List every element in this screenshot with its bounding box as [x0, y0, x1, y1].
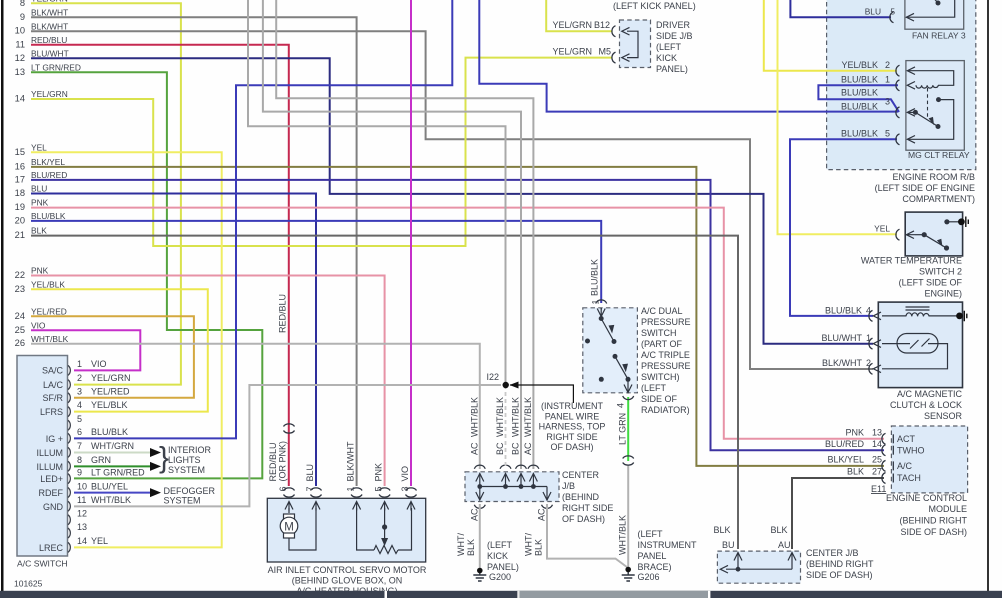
svg-text:5: 5	[890, 7, 895, 17]
ECM pin names	[897, 434, 925, 483]
svg-text:BLU/BLK: BLU/BLK	[841, 75, 878, 85]
svg-text:4: 4	[77, 400, 82, 410]
svg-text:BLK: BLK	[31, 226, 47, 236]
svg-text:BLK/YEL: BLK/YEL	[31, 157, 65, 167]
svg-text:8: 8	[77, 455, 82, 465]
svg-text:PNK: PNK	[31, 266, 49, 276]
svg-text:(PART OF: (PART OF	[641, 339, 683, 349]
driver side J/B connector arcs	[612, 26, 616, 37]
pin 2 arrow	[873, 365, 881, 373]
pressure switch pin 1 connector arc	[596, 300, 607, 304]
svg-text:BLU: BLU	[305, 464, 315, 482]
svg-text:(LEFT KICK PANEL): (LEFT KICK PANEL)	[613, 1, 696, 11]
driver side J/B pin labels	[552, 20, 611, 57]
left instrument panel brace caption	[638, 529, 697, 572]
svg-text:M: M	[284, 522, 294, 534]
MG CLT relay internal: pin2 to coil top	[908, 71, 954, 86]
svg-text:16: 16	[15, 161, 25, 171]
A/C magnetic clutch and lock sensor box	[878, 302, 962, 388]
svg-text:(LEFT: (LEFT	[656, 42, 682, 52]
svg-text:WHT/BLK: WHT/BLK	[618, 515, 628, 555]
svg-text:WHT/GRN: WHT/GRN	[91, 441, 134, 451]
svg-text:9: 9	[20, 12, 25, 22]
svg-text:MODULE: MODULE	[928, 504, 967, 514]
svg-text:ILLUM: ILLUM	[36, 462, 63, 472]
svg-text:SWITCH: SWITCH	[641, 328, 677, 338]
svg-text:BLU/WHT: BLU/WHT	[822, 333, 863, 343]
wire WHT/BLK center J/B left exit to G200	[479, 504, 481, 569]
svg-text:YEL/GRN: YEL/GRN	[91, 373, 131, 383]
servo internal potentiometer circuit wire	[357, 508, 412, 550]
svg-text:26: 26	[15, 338, 25, 348]
svg-text:BLU/RED: BLU/RED	[31, 170, 67, 180]
svg-text:LIGHTS: LIGHTS	[168, 455, 201, 465]
svg-text:WHT/BLK: WHT/BLK	[511, 397, 521, 437]
ECM wire labels	[825, 428, 882, 477]
svg-text:BLK: BLK	[466, 539, 476, 556]
bottom center J/B entries	[734, 553, 796, 561]
svg-text:5: 5	[374, 486, 384, 491]
water temp switch pin connector	[896, 229, 900, 240]
svg-text:RED/BLU: RED/BLU	[31, 35, 67, 45]
svg-text:BLK/WHT: BLK/WHT	[31, 8, 68, 18]
svg-text:1: 1	[346, 486, 356, 491]
engine control module dashed box	[891, 426, 967, 493]
left page border	[1, 0, 4, 591]
svg-text:YEL/RED: YEL/RED	[91, 387, 130, 397]
svg-text:SIDE OF DASH): SIDE OF DASH)	[900, 527, 967, 537]
driver side J/B caption	[656, 20, 693, 74]
svg-text:RADIATOR): RADIATOR)	[641, 405, 690, 415]
svg-text:OF DASH): OF DASH)	[562, 514, 605, 524]
svg-text:YEL/GRN: YEL/GRN	[552, 47, 592, 57]
svg-text:1: 1	[885, 75, 890, 85]
svg-text:LED+: LED+	[40, 474, 63, 484]
svg-text:LA/C: LA/C	[43, 380, 64, 390]
svg-text:SWITCH 2: SWITCH 2	[919, 267, 962, 277]
wire pressure switch pin 4 LT GRN	[627, 397, 629, 461]
svg-text:LREC: LREC	[39, 543, 64, 553]
wire row21 BLK: to bottom center J/B pin BU	[31, 236, 738, 549]
wire gray vertical V1 from top to center J/B 3rd entry	[263, 0, 521, 469]
svg-text:DRIVER: DRIVER	[656, 20, 691, 30]
svg-text:18: 18	[15, 188, 25, 198]
svg-text:INTERIOR: INTERIOR	[168, 445, 212, 455]
svg-text:BLU/BLK: BLU/BLK	[841, 129, 878, 139]
svg-text:RIGHT SIDE: RIGHT SIDE	[562, 503, 613, 513]
svg-text:FAN RELAY 3: FAN RELAY 3	[912, 31, 966, 41]
svg-text:HARNESS, TOP: HARNESS, TOP	[539, 422, 606, 432]
A/C switch body	[17, 356, 68, 557]
svg-text:PRESSURE: PRESSURE	[641, 361, 691, 371]
svg-text:AC: AC	[523, 442, 533, 455]
svg-text:PANEL: PANEL	[638, 551, 667, 561]
svg-text:SWITCH): SWITCH)	[641, 372, 680, 382]
svg-text:E11: E11	[871, 484, 886, 494]
svg-text:6: 6	[77, 427, 82, 437]
wire MG CLT relay pin1-pin3 jumper BLU/BLK	[818, 85, 899, 112]
svg-text:WHT/BLK: WHT/BLK	[469, 397, 479, 437]
svg-text:SYSTEM: SYSTEM	[168, 465, 205, 475]
svg-text:YEL/GRN: YEL/GRN	[31, 0, 68, 4]
svg-text:GND: GND	[43, 502, 64, 512]
wire gray vertical V2 from top to center J/B 4th entry	[276, 0, 533, 469]
clutch coil (pin 4)	[873, 312, 881, 320]
svg-text:(LEFT SIDE OF: (LEFT SIDE OF	[899, 278, 963, 288]
svg-text:PNK: PNK	[31, 198, 49, 208]
svg-text:SENSOR: SENSOR	[924, 411, 963, 421]
center J/B internal bus	[480, 474, 547, 501]
svg-text:WHT/BLK: WHT/BLK	[31, 334, 69, 344]
svg-text:27: 27	[872, 467, 882, 477]
svg-text:BLU/YEL: BLU/YEL	[91, 482, 128, 492]
arrow to interior lights (pin 8)	[150, 462, 161, 471]
svg-text:A/C: A/C	[897, 461, 913, 471]
wire WHT/BLK pressure switch to G206	[627, 465, 629, 568]
svg-text:WHT/BLK: WHT/BLK	[495, 397, 505, 437]
svg-text:BLU/BLK: BLU/BLK	[91, 427, 128, 437]
potentiometer wiper from pin 5	[384, 508, 386, 527]
svg-text:SIDE J/B: SIDE J/B	[656, 31, 693, 41]
svg-text:IG +: IG +	[46, 434, 63, 444]
svg-text:PRESSURE: PRESSURE	[641, 317, 691, 327]
svg-text:J/B: J/B	[562, 481, 575, 491]
svg-text:BLK: BLK	[847, 467, 864, 477]
svg-text:CLUTCH & LOCK: CLUTCH & LOCK	[890, 400, 962, 410]
svg-text:9: 9	[77, 468, 82, 478]
svg-text:25: 25	[15, 325, 25, 335]
wire MG CLT relay pin 5 BLU/BLK to clutch pin 4	[790, 139, 897, 316]
svg-text:BLK: BLK	[713, 525, 730, 535]
svg-text:PANEL): PANEL)	[656, 64, 688, 74]
svg-text:101625: 101625	[14, 579, 43, 589]
wire YEL/BLK from top to MG CLT relay pin 2	[764, 0, 897, 71]
svg-text:(LEFT: (LEFT	[487, 540, 513, 550]
wire A/C switch pin 11 GND WHT/BLK to I22	[74, 385, 501, 506]
pressure switch caption	[641, 306, 691, 415]
svg-text:(LEFT SIDE OF ENGINE: (LEFT SIDE OF ENGINE	[875, 183, 975, 193]
svg-text:RED/BLU: RED/BLU	[278, 294, 288, 333]
svg-text:BLK/WHT: BLK/WHT	[822, 358, 863, 368]
svg-text:COMPARTMENT): COMPARTMENT)	[902, 194, 975, 204]
svg-text:8: 8	[20, 0, 25, 8]
servo caption	[268, 565, 427, 596]
wire row25 VIO: to A/C switch pin 1	[31, 330, 140, 370]
wire row19 PNK: to ECM pin 13 ACT	[31, 208, 884, 439]
svg-text:19: 19	[15, 202, 25, 212]
LT GRN inline connector on pressure switch wire	[623, 456, 634, 465]
center J/B (middle) dashed box	[465, 472, 559, 502]
pressure switch pin 4 connector arc	[623, 396, 634, 400]
svg-text:2: 2	[77, 373, 82, 383]
bottom center J/B wire labels	[713, 525, 790, 550]
center J/B caption	[562, 470, 613, 524]
wire row26 WHT/BLK: to center J/B 1st entry	[31, 344, 480, 469]
clutch pin labels	[822, 306, 872, 369]
svg-text:ACT: ACT	[897, 434, 916, 444]
svg-text:BLU/BLK: BLU/BLK	[841, 88, 878, 98]
svg-text:A/C TRIPLE: A/C TRIPLE	[641, 350, 690, 360]
svg-text:23: 23	[15, 284, 25, 294]
svg-text:BLK/YEL: BLK/YEL	[827, 455, 864, 465]
svg-text:YEL/BLK: YEL/BLK	[31, 280, 65, 290]
svg-text:1: 1	[77, 359, 82, 369]
svg-text:LT GRN/RED: LT GRN/RED	[91, 468, 145, 478]
svg-text:PNK: PNK	[845, 428, 864, 438]
svg-text:AC: AC	[537, 508, 547, 521]
svg-text:11: 11	[15, 39, 25, 49]
wire row16 BLK/YEL: to ECM pin 25 A/C	[31, 167, 884, 466]
svg-text:(BEHIND GLOVE BOX, ON: (BEHIND GLOVE BOX, ON	[292, 576, 403, 586]
bottom center J/B caption	[806, 548, 874, 580]
svg-text:AC: AC	[469, 442, 479, 455]
wire row18 BLU: to servo pin 7	[31, 194, 316, 487]
svg-text:12: 12	[15, 53, 25, 63]
pressure switch internal contacts	[600, 308, 602, 310]
svg-text:AU: AU	[778, 540, 791, 550]
center J/B entry arrows (up)	[476, 474, 538, 482]
svg-text:BLU/BLK: BLU/BLK	[825, 306, 862, 316]
svg-text:4: 4	[616, 403, 626, 408]
svg-text:PANEL WIRE: PANEL WIRE	[545, 411, 600, 421]
wire row24 YEL/RED: to A/C switch pin 3	[31, 316, 194, 397]
svg-text:BC: BC	[495, 442, 505, 455]
svg-text:BLU/BLK: BLU/BLK	[590, 259, 600, 296]
svg-text:YEL/GRN: YEL/GRN	[31, 89, 68, 99]
MG CLT relay contact arm pin3	[907, 109, 915, 117]
svg-text:BLU/WHT: BLU/WHT	[31, 49, 69, 59]
svg-text:PANEL): PANEL)	[487, 562, 519, 572]
wire YEL from top to water temperature switch 2	[778, 0, 898, 234]
svg-text:ILLUM: ILLUM	[36, 448, 63, 458]
svg-text:AC: AC	[469, 508, 479, 521]
svg-text:WHT/: WHT/	[456, 533, 466, 556]
svg-text:BLK/WHT: BLK/WHT	[31, 22, 68, 32]
wire BLU vertical from top to MG CLT relay pin 3	[479, 0, 898, 112]
center J/B rotated wire labels	[456, 397, 628, 556]
wire row10 BLK/WHT: to A/C clutch lock sensor pin 2	[31, 31, 873, 369]
engine room R/B dashed box	[827, 0, 976, 170]
svg-text:17: 17	[15, 174, 25, 184]
svg-text:SF/R: SF/R	[42, 393, 63, 403]
svg-text:INSTRUMENT: INSTRUMENT	[638, 540, 697, 550]
svg-text:YEL/GRN: YEL/GRN	[552, 20, 592, 30]
A/C switch pin names	[36, 366, 63, 554]
ground G206	[622, 568, 635, 581]
svg-text:13: 13	[15, 67, 25, 77]
svg-text:20: 20	[15, 215, 25, 225]
wire row11 RED/BLU: to servo pin 6	[31, 45, 289, 486]
svg-text:SIDE OF: SIDE OF	[641, 394, 678, 404]
servo internal motor circuit wire	[289, 508, 316, 550]
I22 junction dot	[503, 382, 509, 388]
wire A/C switch pin 10 BLU/YEL to defogger	[74, 492, 150, 494]
svg-text:RED/BLU: RED/BLU	[268, 442, 278, 481]
A/C switch pin numbers and wire labels	[77, 359, 145, 546]
ground G200	[473, 569, 486, 581]
svg-text:14: 14	[872, 439, 882, 449]
wire row23 YEL/BLK: to A/C switch pin 4	[31, 289, 208, 411]
svg-text:12: 12	[77, 509, 87, 519]
svg-text:7: 7	[305, 486, 315, 491]
wire A/C switch pin 7 WHT/GRN to interior lights	[74, 452, 150, 454]
svg-text:(INSTRUMENT: (INSTRUMENT	[541, 401, 603, 411]
svg-text:VIO: VIO	[91, 359, 107, 369]
svg-text:WHT/BLK: WHT/BLK	[91, 495, 131, 505]
ECM pin connectors	[882, 433, 893, 483]
svg-text:6: 6	[278, 486, 288, 491]
bottom scrollbar	[0, 591, 1002, 598]
svg-text:3: 3	[400, 486, 410, 491]
center J/B exit arrows (down)	[476, 492, 551, 500]
svg-text:(BEHIND RIGHT: (BEHIND RIGHT	[900, 516, 968, 526]
svg-text:13: 13	[872, 428, 882, 438]
svg-text:3: 3	[885, 97, 890, 107]
svg-text:15: 15	[15, 147, 25, 157]
svg-text:7: 7	[77, 441, 82, 451]
arrow to defogger (pin 10)	[150, 488, 161, 497]
bottom center J/B dashed box	[717, 551, 800, 583]
svg-text:22: 22	[15, 270, 25, 280]
svg-text:BLU: BLU	[31, 184, 47, 194]
svg-text:2: 2	[866, 358, 871, 368]
svg-text:A/C SWITCH: A/C SWITCH	[17, 559, 68, 569]
svg-text:OF DASH): OF DASH)	[550, 442, 593, 452]
MG CLT relay fixed contact to pin 5	[936, 97, 941, 102]
wire row9 BLK/WHT: to servo pin 1	[31, 17, 357, 486]
wire row12 BLU/WHT: jog to A/C clutch lock sensor pin 1	[31, 58, 873, 344]
svg-text:YEL: YEL	[31, 143, 47, 153]
servo wire inline connectors	[284, 424, 417, 497]
svg-text:G200: G200	[489, 572, 511, 582]
instrument panel harness caption	[539, 401, 606, 452]
svg-text:G206: G206	[638, 572, 660, 582]
svg-text:BLU/RED: BLU/RED	[825, 439, 865, 449]
wire row8 YEL/GRN: to A/C switch pin 2 LA/C	[31, 3, 181, 384]
svg-text:RIGHT SIDE: RIGHT SIDE	[546, 432, 597, 442]
svg-text:LT GRN/RED: LT GRN/RED	[31, 63, 81, 73]
svg-text:1: 1	[866, 333, 871, 343]
I22 dashed wire below junction	[505, 385, 507, 469]
svg-text:MG CLT RELAY: MG CLT RELAY	[908, 150, 970, 160]
MG CLT relay pin connector arcs	[896, 65, 900, 145]
driver side J/B internal jumper	[627, 31, 638, 57]
svg-text:SA/C: SA/C	[42, 366, 64, 376]
svg-text:BLU/BLK: BLU/BLK	[31, 211, 66, 221]
svg-text:SYSTEM: SYSTEM	[164, 496, 201, 506]
fan relay 3 pin 5 connector	[890, 12, 894, 23]
svg-text:21: 21	[15, 230, 25, 240]
servo internal: pin arrows	[285, 502, 415, 511]
svg-text:YEL/RED: YEL/RED	[31, 307, 67, 317]
wire row22 PNK: to servo pin 5	[31, 276, 385, 487]
engine room R/B caption	[875, 172, 975, 204]
svg-text:2: 2	[885, 60, 890, 70]
water temperature switch 2 box	[905, 212, 962, 256]
svg-text:1: 1	[591, 299, 601, 304]
svg-text:WATER TEMPERATURE: WATER TEMPERATURE	[861, 256, 962, 266]
wire WHT/BLK center J/B right exit to G206	[547, 504, 628, 568]
wire ECM pin 27 BLK to bottom center J/B pin AU	[792, 478, 884, 549]
svg-text:BLK: BLK	[770, 525, 787, 535]
svg-text:3: 3	[77, 387, 82, 397]
wire IG+ BLU/BLK: A/C switch pin 6 to top	[74, 0, 452, 438]
svg-text:WHT/BLK: WHT/BLK	[523, 397, 533, 437]
svg-text:25: 25	[872, 455, 882, 465]
svg-text:TACH: TACH	[897, 473, 921, 483]
A/C switch pin connector arcs	[68, 365, 70, 552]
svg-text:ENGINE): ENGINE)	[924, 289, 962, 299]
svg-text:BU: BU	[722, 540, 735, 550]
wire row17 BLU/RED: to ECM pin 14 TWHO	[31, 180, 884, 450]
svg-text:5: 5	[885, 129, 890, 139]
center J/B connector arcs top	[474, 465, 552, 508]
svg-text:11: 11	[77, 495, 86, 505]
MG CLT relay dashed link coil to contact	[927, 88, 929, 118]
svg-text:(LEFT: (LEFT	[638, 529, 664, 539]
svg-text:GRN: GRN	[91, 455, 111, 465]
svg-text:B12: B12	[594, 20, 610, 30]
svg-text:M5: M5	[598, 47, 611, 57]
svg-text:AIR INLET CONTROL SERVO MOTOR: AIR INLET CONTROL SERVO MOTOR	[268, 565, 427, 575]
ECM caption	[886, 493, 968, 537]
A/C dual pressure switch dashed box	[583, 308, 638, 393]
svg-text:5: 5	[77, 414, 82, 424]
wire BLU from top to fan relay 3 pin 5	[790, 0, 891, 17]
air inlet control servo motor box	[267, 498, 425, 562]
wire gray vertical V3 from top to I22	[248, 0, 506, 382]
svg-text:PNK: PNK	[374, 463, 384, 482]
clutch pin connector arcs	[869, 310, 873, 374]
svg-text:BRACE): BRACE)	[638, 562, 672, 572]
svg-text:WHT/: WHT/	[524, 533, 534, 556]
I22 pointer arrow line	[510, 385, 573, 403]
svg-text:RDEF: RDEF	[39, 488, 64, 498]
svg-text:24: 24	[15, 311, 25, 321]
potentiometer wiper junction dot and arrow	[382, 524, 387, 529]
wire YEL/GRN from top to driver side J/B pin B12	[546, 0, 612, 31]
wire A/C switch pin 8 GRN to interior lights	[74, 465, 150, 467]
wire row20 BLU/BLK: to pressure switch pin 1	[31, 221, 601, 303]
svg-text:A/C DUAL: A/C DUAL	[641, 306, 683, 316]
svg-text:KICK: KICK	[487, 551, 508, 561]
arrow to interior lights (pin 7)	[150, 448, 161, 457]
driver side J/B dashed box	[620, 20, 651, 68]
wire row15 YEL: to A/C switch pin 14 LREC	[31, 152, 222, 547]
svg-text:(BEHIND RIGHT: (BEHIND RIGHT	[806, 559, 874, 569]
svg-text:VIO: VIO	[31, 321, 46, 331]
svg-text:10: 10	[15, 26, 25, 36]
svg-text:TWHO: TWHO	[897, 446, 925, 456]
svg-text:LFRS: LFRS	[40, 407, 63, 417]
svg-text:LT GRN: LT GRN	[618, 413, 628, 445]
svg-text:13: 13	[77, 522, 87, 532]
svg-text:VIO: VIO	[400, 466, 410, 482]
svg-text:(BEHIND: (BEHIND	[562, 492, 600, 502]
svg-text:KICK: KICK	[656, 53, 677, 63]
svg-text:SIDE OF DASH): SIDE OF DASH)	[806, 570, 873, 580]
right page border	[987, 0, 989, 591]
svg-text:10: 10	[77, 482, 87, 492]
svg-text:CENTER: CENTER	[562, 470, 600, 480]
MG CLT relay box	[906, 61, 964, 151]
svg-text:YEL/BLK: YEL/BLK	[841, 60, 878, 70]
svg-text:CENTER J/B: CENTER J/B	[806, 548, 859, 558]
MG CLT relay pin labels	[841, 60, 890, 139]
left wire-number column and color labels	[15, 0, 81, 348]
servo rotated wire labels	[268, 294, 410, 492]
MG CLT relay coil (pin1)	[907, 82, 915, 90]
